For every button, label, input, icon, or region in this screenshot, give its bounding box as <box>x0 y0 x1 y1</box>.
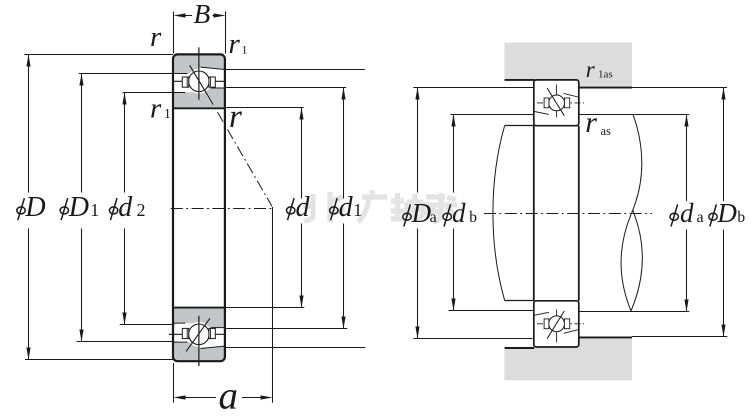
svg-text:r: r <box>229 28 241 60</box>
svg-text:D: D <box>24 192 45 223</box>
svg-text:D: D <box>68 192 89 223</box>
svg-text:1: 1 <box>90 200 99 220</box>
svg-text:b: b <box>737 209 745 226</box>
svg-text:1as: 1as <box>598 69 613 81</box>
svg-text:a: a <box>430 209 437 226</box>
svg-text:d: d <box>452 198 466 228</box>
svg-text:r: r <box>585 106 597 139</box>
svg-text:d: d <box>339 192 354 223</box>
svg-text:1: 1 <box>164 106 171 121</box>
svg-text:a: a <box>697 209 704 226</box>
svg-text:1: 1 <box>242 43 248 57</box>
svg-text:2: 2 <box>137 200 146 220</box>
svg-text:D: D <box>716 198 737 228</box>
svg-text:D: D <box>411 198 432 228</box>
svg-text:d: d <box>118 192 133 223</box>
svg-text:d: d <box>296 192 311 223</box>
svg-text:a: a <box>219 375 239 416</box>
svg-text:1: 1 <box>353 200 362 220</box>
svg-text:r: r <box>229 99 242 135</box>
svg-text:d: d <box>680 198 694 228</box>
svg-text:r: r <box>586 57 596 82</box>
svg-text:r: r <box>150 93 162 125</box>
svg-text:as: as <box>601 124 612 138</box>
svg-text:r: r <box>150 21 162 53</box>
svg-text:B: B <box>194 0 211 29</box>
svg-text:b: b <box>469 209 477 226</box>
